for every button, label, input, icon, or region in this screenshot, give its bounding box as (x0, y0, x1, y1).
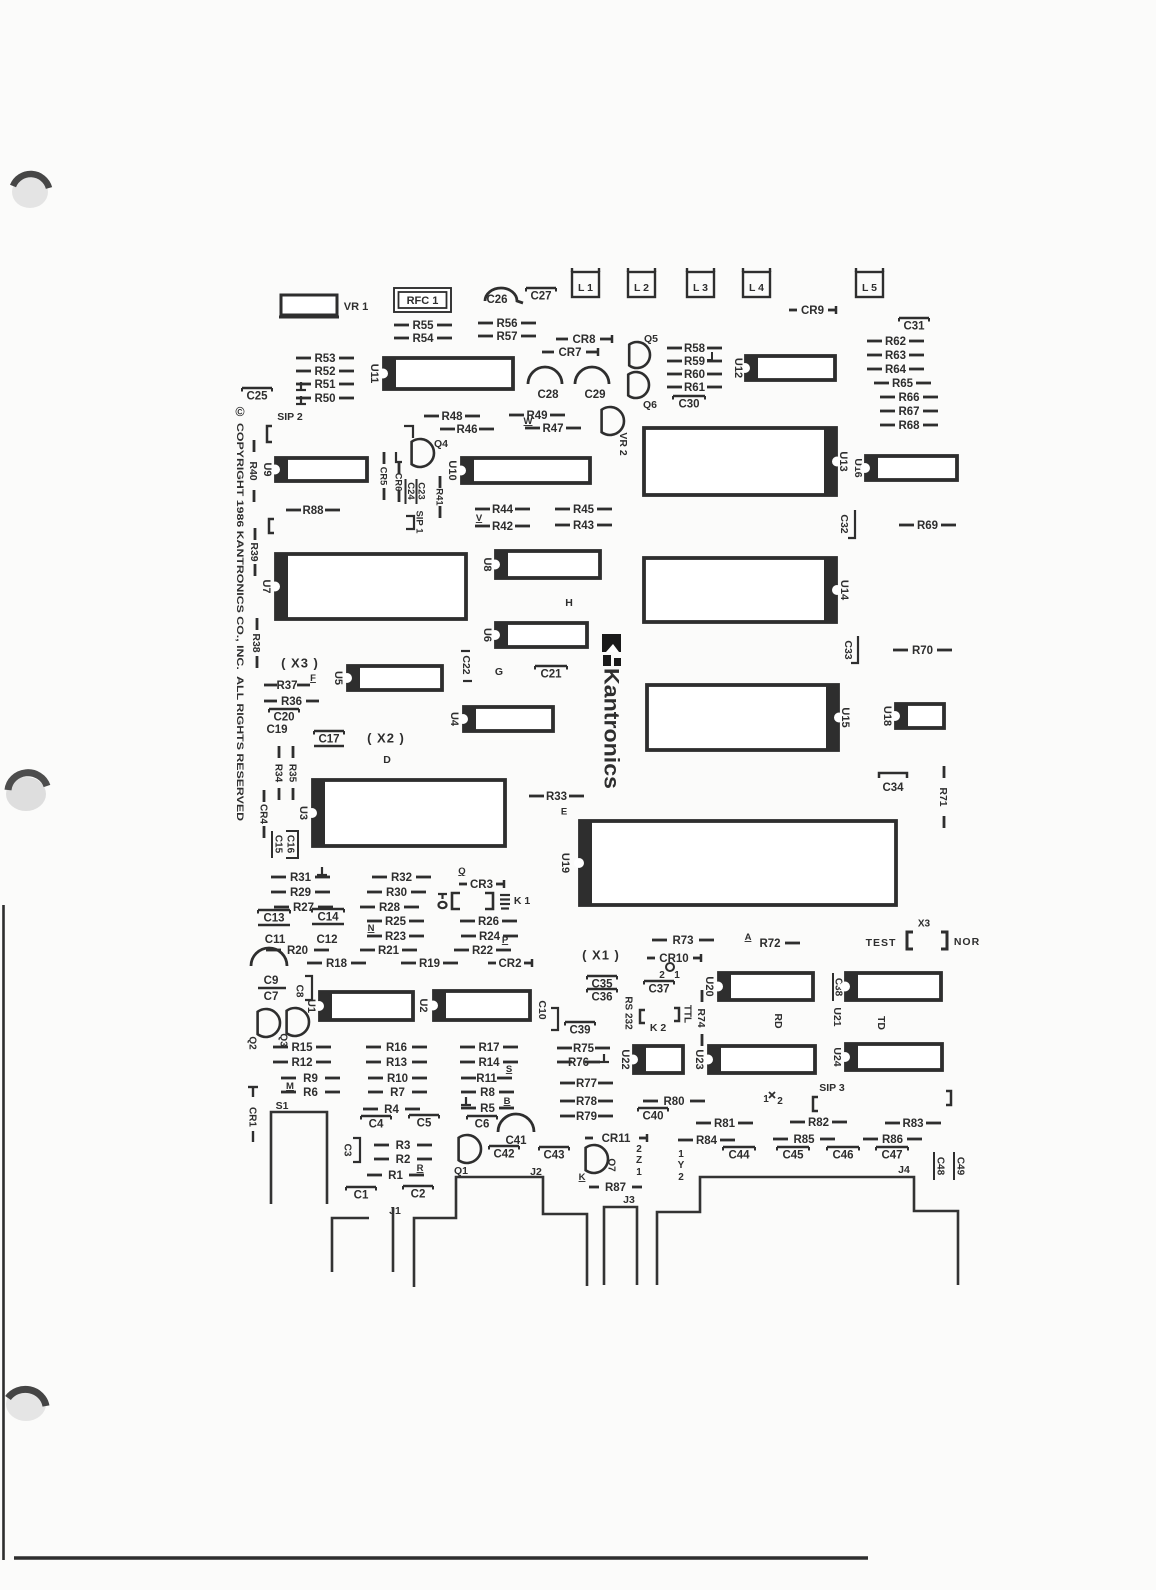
IC U22 (619, 1045, 683, 1074)
label VR 2 (617, 432, 629, 456)
resistor R18 (307, 958, 366, 970)
resistor R23 (367, 931, 424, 943)
svg-text:R8: R8 (480, 1087, 495, 1099)
switch S1 outline (271, 1112, 327, 1204)
resistor R32 (372, 872, 431, 884)
svg-text:B: B (504, 1096, 511, 1107)
svg-text:1: 1 (674, 970, 680, 981)
svg-text:COPYRIGHT 1986 KANTRONICS CO.,: COPYRIGHT 1986 KANTRONICS CO., INC. ALL … (235, 423, 245, 821)
resistor R71 vertical (937, 766, 949, 828)
svg-text:C2: C2 (411, 1189, 426, 1201)
svg-text:C29: C29 (584, 389, 605, 401)
resistor R69 (899, 520, 956, 532)
resistor R82 (790, 1117, 847, 1129)
tick P at R24 (502, 935, 509, 946)
svg-text:R57: R57 (496, 331, 517, 343)
svg-text:R52: R52 (314, 366, 335, 378)
capacitor C25 (242, 388, 272, 403)
connector J1 edge (332, 1208, 393, 1272)
capacitor C32 vertical (838, 510, 855, 538)
capacitor C41 arc (498, 1114, 534, 1132)
resistor R42 (475, 521, 530, 533)
svg-text:K 2: K 2 (650, 1022, 667, 1034)
svg-text:R86: R86 (882, 1134, 903, 1146)
svg-text:C33: C33 (842, 640, 854, 659)
capacitor C9/C7 labels (258, 975, 286, 1003)
label J2 (530, 1166, 542, 1178)
bracket below R88 (269, 519, 274, 533)
svg-text:R5: R5 (480, 1103, 495, 1115)
svg-text:H: H (565, 597, 573, 609)
svg-text:C21: C21 (540, 669, 562, 681)
svg-text:1: 1 (763, 1094, 769, 1105)
resistor R30 (367, 887, 426, 899)
label U16 of U13 (852, 458, 864, 477)
resistor R13 (366, 1057, 427, 1069)
svg-text:U24: U24 (831, 1047, 843, 1066)
capacitor C26 arc (485, 288, 523, 303)
svg-text:C36: C36 (591, 992, 612, 1004)
transistor Q4 (412, 439, 434, 467)
resistor R7 (368, 1087, 427, 1099)
svg-text:R50: R50 (314, 393, 335, 405)
tick U at Q4 (396, 452, 402, 462)
TEST bracket (907, 932, 913, 949)
svg-text:R33: R33 (546, 791, 567, 803)
svg-text:U12: U12 (732, 358, 744, 378)
resistor R6 (281, 1087, 340, 1099)
svg-text:R1: R1 (388, 1170, 403, 1182)
pads 2-Z-1 vertical (636, 1144, 642, 1178)
svg-text:R32: R32 (391, 872, 412, 884)
resistor R78 (560, 1096, 613, 1108)
resistor R67 (880, 406, 938, 418)
svg-text:U4: U4 (448, 712, 460, 727)
svg-text:CR3: CR3 (470, 879, 493, 891)
svg-text:C24: C24 (405, 482, 416, 500)
svg-text:CR8: CR8 (572, 334, 596, 346)
resistor R5 (461, 1103, 514, 1115)
svg-text:R: R (417, 1163, 424, 1174)
svg-text:R36: R36 (281, 696, 302, 708)
svg-text:R44: R44 (492, 504, 514, 516)
inductor L1 (572, 268, 599, 297)
label C12 (316, 934, 337, 946)
svg-text:R62: R62 (885, 336, 906, 348)
svg-text:C15: C15 (272, 835, 283, 854)
svg-text:J4: J4 (898, 1164, 910, 1176)
tick R at R1 (417, 1163, 424, 1174)
svg-text:CR5: CR5 (379, 467, 389, 485)
capacitor C38 vertical (832, 973, 843, 1001)
capacitor C23 vertical (416, 479, 427, 504)
svg-text:R60: R60 (684, 369, 705, 381)
svg-text:R41: R41 (434, 488, 445, 506)
capacitor C45 (777, 1147, 809, 1162)
resistor R88 (286, 505, 340, 517)
svg-text:C30: C30 (678, 399, 699, 411)
svg-text:L 4: L 4 (749, 282, 764, 294)
svg-text:R56: R56 (496, 318, 517, 330)
K2 right bracket (TTL) (674, 1008, 679, 1021)
capacitor C21 (535, 666, 567, 681)
resistor R12 (273, 1057, 331, 1069)
svg-text:R18: R18 (326, 958, 348, 970)
svg-text:R23: R23 (385, 931, 406, 943)
svg-text:P: P (502, 935, 509, 946)
svg-text:U23: U23 (693, 1049, 705, 1069)
svg-text:C46: C46 (832, 1150, 853, 1162)
IC U2 (417, 990, 530, 1021)
NOR bracket (941, 932, 947, 949)
svg-text:R43: R43 (573, 520, 594, 532)
svg-text:C8: C8 (293, 985, 304, 998)
capacitor C46 (827, 1147, 859, 1162)
svg-text:C11: C11 (265, 934, 286, 946)
svg-text:J1: J1 (389, 1205, 401, 1217)
capacitor C48 vertical (934, 1152, 945, 1180)
svg-text:R15: R15 (291, 1042, 313, 1054)
svg-text:CR1: CR1 (246, 1107, 257, 1127)
resistor R16 (366, 1042, 427, 1054)
diode CR4 vertical (257, 790, 268, 838)
label C29 (584, 389, 605, 401)
svg-text:RS 232: RS 232 (622, 996, 633, 1030)
svg-text:R9: R9 (303, 1073, 318, 1085)
label C26 (486, 294, 507, 306)
svg-text:R45: R45 (573, 504, 595, 516)
IC U15 (647, 684, 851, 751)
svg-text:NOR: NOR (954, 936, 980, 948)
svg-text:SIP 3: SIP 3 (819, 1082, 845, 1094)
label C41 (505, 1135, 527, 1147)
IC U7 (260, 553, 466, 620)
IC U14 (644, 557, 850, 623)
diode CR3 (459, 879, 504, 891)
svg-text:U9: U9 (261, 462, 273, 476)
capacitor C43 (539, 1147, 569, 1162)
svg-text:C26: C26 (486, 294, 507, 306)
svg-text:C12: C12 (316, 934, 337, 946)
svg-text:RFC 1: RFC 1 (407, 295, 439, 307)
resistor R49 (509, 410, 565, 422)
diode CR9 (789, 305, 836, 317)
capacitor C6 (467, 1116, 497, 1131)
resistor R75 (557, 1043, 610, 1055)
svg-text:C31: C31 (903, 321, 925, 333)
svg-text:R83: R83 (902, 1118, 923, 1130)
tick M at R6 (286, 1081, 294, 1092)
resistor R41 vertical (434, 476, 445, 518)
svg-text:CR6: CR6 (394, 473, 404, 491)
svg-text:C25: C25 (246, 391, 268, 403)
IC U24 (840, 1043, 942, 1071)
resistor R84 (678, 1135, 735, 1147)
capacitor C31 (899, 318, 929, 333)
svg-text:R28: R28 (379, 902, 401, 914)
capacitor C15 vertical (272, 831, 283, 858)
resistor R48 (424, 411, 480, 423)
capacitor C49 vertical (954, 1152, 965, 1180)
IC U23 (693, 1045, 815, 1074)
svg-text:R31: R31 (290, 872, 312, 884)
svg-text:Q5: Q5 (644, 333, 658, 345)
svg-text:C16: C16 (284, 835, 295, 854)
svg-text:R21: R21 (378, 945, 400, 957)
svg-text:1: 1 (636, 1167, 642, 1178)
svg-text:C49: C49 (954, 1157, 965, 1176)
svg-text:C47: C47 (881, 1150, 902, 1162)
resistor R25 (367, 916, 424, 928)
IC U16 (860, 455, 957, 481)
resistor R51 (296, 379, 354, 391)
label Q7 (605, 1158, 616, 1172)
svg-text:Q2: Q2 (246, 1036, 257, 1050)
svg-text:R68: R68 (898, 420, 920, 432)
svg-text:( X2 ): ( X2 ) (367, 731, 405, 746)
capacitor C2 (403, 1186, 433, 1201)
label J3 (623, 1194, 635, 1206)
resistor R27 (274, 902, 333, 914)
svg-text:R30: R30 (386, 887, 407, 899)
inductor L4 (743, 268, 770, 297)
svg-text:R34: R34 (272, 764, 283, 783)
resistor R58 (667, 343, 722, 355)
resistor R63 (867, 350, 924, 362)
label E (561, 806, 567, 817)
svg-text:R6: R6 (303, 1087, 318, 1099)
svg-text:R25: R25 (385, 916, 407, 928)
crystal pads 2-O-1 (659, 963, 680, 981)
resistor R70 (893, 645, 952, 657)
capacitor C24 vertical (405, 479, 416, 504)
label Q4 (434, 438, 448, 450)
tick Q at CR3 (458, 866, 465, 877)
svg-text:U21: U21 (831, 1007, 843, 1026)
resistor R8 (461, 1087, 514, 1099)
IC U12 (732, 355, 835, 381)
resistor R15 (273, 1042, 331, 1054)
svg-text:C27: C27 (530, 291, 551, 303)
resistor R20 (266, 945, 329, 957)
label C11 (265, 934, 286, 946)
svg-text:CR9: CR9 (801, 305, 824, 317)
svg-text:R73: R73 (672, 935, 693, 947)
svg-text:F: F (310, 673, 316, 684)
svg-text:J3: J3 (623, 1194, 635, 1206)
svg-text:L 3: L 3 (693, 282, 708, 294)
svg-text:C23: C23 (416, 482, 427, 499)
svg-text:Q1: Q1 (454, 1165, 468, 1177)
capacitor C44 (723, 1147, 755, 1162)
svg-text:R59: R59 (684, 356, 705, 368)
label Q2 (246, 1036, 257, 1050)
capacitor C13 (258, 910, 290, 925)
tick T at R31 (317, 867, 327, 875)
svg-text:R87: R87 (605, 1182, 626, 1194)
transistor VR2 (602, 407, 624, 435)
label VR 1 (344, 301, 368, 313)
svg-text:R17: R17 (478, 1042, 499, 1054)
resistor R19 (401, 958, 458, 970)
svg-text:R72: R72 (759, 938, 780, 950)
resistor R72 (759, 938, 800, 950)
svg-text:U13: U13 (837, 451, 849, 471)
label G (495, 666, 503, 678)
svg-text:U5: U5 (332, 671, 344, 685)
svg-text:R39: R39 (248, 542, 260, 561)
capacitor C8 vertical (293, 976, 312, 1000)
svg-text:R75: R75 (573, 1043, 595, 1055)
resistor R35 vertical (286, 746, 297, 800)
svg-text:R70: R70 (912, 645, 933, 657)
transistor Q3 (287, 1008, 309, 1036)
tick V at R42 (476, 513, 483, 524)
label NOR (954, 936, 980, 948)
svg-text:R51: R51 (314, 379, 336, 391)
label Q3 (277, 1033, 288, 1047)
svg-text:Q6: Q6 (643, 399, 657, 411)
capacitor C39 (565, 1022, 595, 1037)
capacitor C37 (644, 981, 674, 996)
svg-text:TEST: TEST (866, 937, 897, 949)
svg-text:R40: R40 (247, 461, 259, 480)
svg-text:C17: C17 (318, 734, 339, 746)
svg-text:W: W (524, 416, 533, 427)
svg-text:R81: R81 (714, 1118, 736, 1130)
resistor R2 (374, 1154, 432, 1166)
capacitor C34 (879, 773, 907, 794)
resistor R55 (394, 320, 452, 332)
SIP1 bracket (406, 516, 414, 529)
capacitor C3 vertical (341, 1138, 360, 1162)
svg-text:U3: U3 (297, 806, 309, 820)
resistor R43 (555, 520, 612, 532)
tick T at R76 (599, 1054, 609, 1062)
svg-text:R74: R74 (695, 1008, 707, 1027)
svg-text:Q: Q (458, 866, 465, 877)
crystal marker (X1) (582, 948, 620, 963)
resistor R68 (880, 420, 938, 432)
svg-text:R54: R54 (412, 333, 434, 345)
svg-text:U8: U8 (481, 557, 493, 571)
svg-text:K: K (579, 1172, 586, 1183)
capacitor C10 vertical (536, 1000, 558, 1030)
resistor R34 vertical (272, 746, 283, 800)
svg-text:U22: U22 (619, 1049, 631, 1069)
label K 2 (650, 1022, 667, 1034)
resistor R64 (867, 364, 924, 376)
resistor R54 (394, 333, 452, 345)
svg-text:R69: R69 (917, 520, 938, 532)
label J1 (389, 1205, 401, 1217)
svg-text:C43: C43 (543, 1150, 564, 1162)
crystal pads 1-x-2 (763, 1092, 783, 1107)
svg-text:R77: R77 (576, 1078, 597, 1090)
label SIP 1 (414, 510, 425, 534)
svg-text:R27: R27 (293, 902, 314, 914)
capacitor C33 vertical (842, 636, 858, 663)
tick W at R47 (524, 416, 533, 427)
connector J3 edge (604, 1207, 637, 1285)
capacitor C40 (638, 1108, 668, 1123)
capacitor C4 (361, 1116, 391, 1131)
resistor R83 (885, 1118, 941, 1130)
svg-text:R13: R13 (386, 1057, 407, 1069)
IC U11 (368, 357, 513, 390)
svg-text:R67: R67 (898, 406, 919, 418)
label C28 (537, 389, 559, 401)
transistor Q2 (258, 1009, 280, 1037)
crystal marker (X2) (367, 731, 405, 746)
resistor R60 (667, 369, 722, 381)
resistor R65 (874, 378, 931, 390)
resistor R39 vertical (248, 528, 260, 576)
resistor R62 (867, 336, 924, 348)
svg-text:U2: U2 (417, 998, 429, 1012)
svg-text:C20: C20 (273, 712, 294, 724)
svg-text:D: D (383, 754, 391, 766)
svg-text:1: 1 (678, 1149, 684, 1160)
label SIP 2 (277, 411, 303, 423)
resistor R76 (557, 1057, 600, 1069)
svg-text:R35: R35 (286, 764, 297, 783)
svg-text:R66: R66 (898, 392, 919, 404)
svg-text:U11: U11 (368, 364, 380, 384)
diode CR7 (542, 347, 598, 359)
label TTL vertical (681, 1005, 692, 1023)
crystal marker (X3) (281, 656, 319, 671)
bracket at Q4 (404, 426, 413, 438)
IC U21 (840, 972, 941, 1001)
svg-text:R3: R3 (396, 1140, 411, 1152)
resistor R21 (360, 945, 417, 957)
svg-text:©: © (235, 405, 245, 419)
tick N at R23 (368, 923, 375, 934)
svg-text:VR 2: VR 2 (617, 432, 629, 456)
resistor R37 (264, 680, 310, 692)
svg-text:CR10: CR10 (659, 953, 688, 965)
relay K1 outline (438, 893, 510, 909)
svg-text:2: 2 (777, 1096, 783, 1107)
tick S at R11 (506, 1064, 512, 1075)
label RS 232 vertical (622, 996, 633, 1030)
svg-text:R20: R20 (287, 945, 308, 957)
diode CR10 (647, 953, 701, 965)
capacitor C28 arc (528, 367, 562, 384)
svg-text:R80: R80 (663, 1096, 684, 1108)
svg-text:R58: R58 (684, 343, 706, 355)
resistor R73 (652, 935, 714, 947)
tick T at R5 (461, 1097, 471, 1105)
svg-text:R64: R64 (885, 364, 907, 376)
label TD vertical (875, 1016, 887, 1030)
transistor Q5 (629, 342, 650, 368)
svg-text:R88: R88 (302, 505, 324, 517)
capacitor C42 (489, 1146, 519, 1161)
svg-text:CR7: CR7 (558, 347, 581, 359)
svg-text:CR2: CR2 (498, 958, 521, 970)
svg-text:U10: U10 (446, 460, 458, 480)
resistor R56 (478, 318, 536, 330)
svg-text:R79: R79 (576, 1111, 597, 1123)
svg-text:R10: R10 (387, 1073, 408, 1085)
svg-text:U7: U7 (260, 579, 272, 593)
svg-text:L 5: L 5 (862, 282, 877, 294)
capacitor C30 (673, 396, 705, 411)
IC U19 (559, 820, 896, 906)
RF choke RFC1 (394, 288, 451, 312)
